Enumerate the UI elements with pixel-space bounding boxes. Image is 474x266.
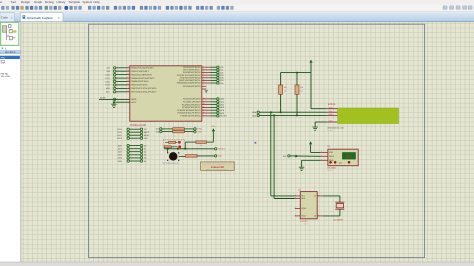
svg-text:Microcontroller Simulation: Microcontroller Simulation [207,169,229,171]
svg-text:TXD: TXD [198,130,203,133]
svg-text:×: × [58,16,60,20]
svg-text:DS18B20: DS18B20 [327,166,336,169]
svg-text:85.0: 85.0 [346,154,352,158]
svg-text:PC4/ADC4/SDA/PCINT12: PC4/ADC4/SDA/PCINT12 [177,109,201,112]
svg-text:Schematic Capture: Schematic Capture [27,16,54,20]
pin PB6 left [127,87,130,89]
svg-text:PD0/RXD/PCINT16: PD0/RXD/PCINT16 [183,66,201,69]
svg-text:X2: X2 [314,215,316,218]
svg-text:PB3/MOSI/OC2A/PCINT3: PB3/MOSI/OC2A/PCINT3 [131,77,155,80]
wire U3 GND to ground [302,159,321,161]
svg-text:AREF: AREF [100,97,106,100]
svg-text:P: P [2,47,4,50]
pin PB7 left [127,91,130,93]
wire to U3 DQ [295,155,298,158]
svg-text:PD4/T0/XCK/PCINT20: PD4/T0/XCK/PCINT20 [180,77,201,80]
svg-text:Tool: Tool [11,0,17,4]
svg-text:X1: X1 [314,195,316,198]
svg-text:PC0/ADC0/PCINT8: PC0/ADC0/PCINT8 [183,98,201,101]
svg-text:AREF: AREF [131,98,137,101]
resistor R6 [295,85,299,94]
menu bar [0,0,474,5]
svg-text:Code: Code [1,16,9,20]
ground U3 [299,167,304,170]
LED TX [178,141,181,144]
svg-text:Arduino UNO: Arduino UNO [211,166,224,169]
svg-text:PB7/TOSC2/XTAL2/PCINT7: PB7/TOSC2/XTAL2/PCINT7 [131,91,157,94]
svg-text:PD1/TXD/PCINT17: PD1/TXD/PCINT17 [183,69,201,72]
svg-text:Template: Template [69,0,81,4]
pin AVCC with ground [114,101,130,103]
LCD1 screen [338,108,399,124]
pin PB3 left [127,77,130,79]
svg-text:PC1/ADC1/PCINT9: PC1/ADC1/PCINT9 [183,101,201,104]
svg-text:RESET: RESET [220,115,227,118]
U3 DS18B20 body [328,149,358,166]
pin PC6 right [202,115,211,117]
svg-text:AVCC: AVCC [131,101,137,104]
pin PC4 right [202,109,211,111]
junction dots bus [270,111,272,113]
svg-text:SCL: SCL [329,110,333,113]
svg-text:LCD1: LCD1 [328,102,336,106]
pin PC0 right [202,98,211,100]
svg-text:ARD: ARD [1,56,6,59]
svg-text:Graph: Graph [34,0,42,4]
svg-text:PC3/ADC3/PCINT11: PC3/ADC3/PCINT11 [182,106,201,109]
svg-text:SQW: SQW [301,207,306,210]
wire SCL row [260,111,327,113]
push button (reset) [167,149,169,153]
resistor in box row A [165,141,168,143]
terminal RESET [215,148,217,150]
svg-text:32.768kHz: 32.768kHz [333,218,343,221]
toolbar [0,5,474,12]
wire SDA row [260,114,327,116]
junction dots [167,148,169,150]
svg-text:PB1/OC1A/PCINT1: PB1/OC1A/PCINT1 [131,70,149,73]
microcontroller U1 ATMEGA328P body [130,66,202,121]
svg-text:×: × [11,16,13,20]
resistor R5 [279,85,283,94]
svg-text:16: 16 [127,73,129,75]
svg-text:Design: Design [21,0,30,4]
svg-text:17: 17 [127,77,129,79]
svg-text:15: 15 [127,70,129,72]
wire reset rail [164,148,214,150]
pin PC5 right [202,112,211,114]
svg-text:PD6/AIN0/OC0A/PCINT22: PD6/AIN0/OC0A/PCINT22 [177,82,202,85]
svg-text:ARDUINO I2C LCD: ARDUINO I2C LCD [327,126,344,129]
pin PB4 left [127,81,130,83]
pin PC2 right [202,104,211,106]
sheet border [89,24,425,257]
left panel [0,22,20,262]
svg-text:PB6/TOSC1/XTAL1/PCINT6: PB6/TOSC1/XTAL1/PCINT6 [131,87,157,90]
svg-text:PB2/SS/OC1B/PCINT2: PB2/SS/OC1B/PCINT2 [131,73,153,76]
U2 left pins [295,195,301,197]
U3 pins [320,152,328,154]
svg-text:PD2/INT0/PCINT18: PD2/INT0/PCINT18 [183,71,201,74]
svg-text:PB0/ICP1/CLKO/PCINT0: PB0/ICP1/CLKO/PCINT0 [131,67,154,70]
svg-text:Help: Help [94,0,100,4]
power arrow top [309,60,312,63]
svg-text:SCL: SCL [301,195,305,198]
LED RX [178,145,181,148]
pin PC3 right [202,106,211,108]
LCD1 pins [327,108,338,110]
pin PB0 left [127,67,130,69]
svg-text:VDD: VDD [329,151,334,154]
svg-text:DATA: DATA [329,155,335,158]
U3 display [342,153,355,160]
pin PB1 left [127,70,130,72]
svg-text:DS1307: DS1307 [300,220,308,223]
label box Arduino UNO [201,162,235,171]
svg-text:YELLOW: YELLOW [1,75,11,78]
crystal X1 [335,201,344,203]
svg-text:RXD: RXD [198,128,203,131]
resistor in box row B [163,146,166,148]
wire top rail [281,72,311,74]
resistor reset pull-up [206,141,213,143]
svg-text:PB5/SCK/PCINT5: PB5/SCK/PCINT5 [131,84,148,87]
svg-text:PC5/ADC5/SCL/PCINT13: PC5/ADC5/SCL/PCINT13 [177,112,201,115]
svg-text:PD3/INT1/OC2B/PCINT19: PD3/INT1/OC2B/PCINT19 [177,74,201,77]
svg-text:DEVICES: DEVICES [5,51,16,54]
svg-text:RESET: RESET [218,148,225,151]
pin PD0 right [202,66,211,68]
pin PD1 right [202,69,211,71]
svg-text:SCK: SCK [144,137,149,140]
pin PC1 right [202,101,211,103]
wire button to resistor [179,155,186,157]
DEVICES header [0,50,20,54]
blue marker dot [255,142,257,144]
device list [0,56,20,59]
svg-text:PB4/MISO/PCINT4: PB4/MISO/PCINT4 [131,80,149,83]
svg-text:18: 18 [127,80,129,82]
U3 buttons [329,161,332,164]
pin PB2 left [127,74,130,76]
pin AREF [99,98,130,100]
ground LCD [313,127,318,130]
dashed module box [163,139,184,148]
pin PD7 stub and gnd [202,85,206,87]
svg-text:PC6/RESET/PCINT14: PC6/RESET/PCINT14 [180,115,201,118]
pin PD5 right [202,79,211,81]
svg-text:System: System [83,0,93,4]
svg-text:PD5/T1/OC0B/PCINT21: PD5/T1/OC0B/PCINT21 [179,79,201,82]
svg-text:CAP: CAP [1,62,6,65]
wire vertical SDA down to U2 [273,115,275,198]
wires to crystal [323,195,340,197]
U2 DS1307 body [300,192,317,219]
svg-text:VBAT: VBAT [301,215,307,218]
power arrow U3 [309,141,312,144]
svg-text:19: 19 [127,83,129,85]
svg-text:Library: Library [57,0,66,4]
status bar [0,262,474,266]
svg-text:10: 10 [127,90,129,92]
resistor to IO6 terminal [185,155,197,158]
wire VSS to ground [315,121,327,123]
wire to dashed box [185,141,196,143]
svg-text:PD7/AIN1/PCINT23: PD7/AIN1/PCINT23 [183,85,202,88]
svg-text:PC2/ADC2/PCINT10: PC2/ADC2/PCINT10 [182,103,201,106]
svg-text:14: 14 [127,66,129,68]
svg-text:ATMEGA328P: ATMEGA328P [130,124,147,127]
svg-text:MISO: MISO [144,134,150,137]
svg-text:MOSI: MOSI [144,131,150,134]
svg-text:Debug: Debug [45,0,54,4]
tab bar [0,12,474,22]
wire VDD down to LCD [310,73,312,109]
pin PD3 right [202,74,211,76]
U2 right pins [317,195,323,197]
pin PD4 right [202,77,211,79]
pin PD6 right [202,82,211,84]
wire vertical SCL down to U2 [270,112,272,196]
pin PD2 right [202,72,211,74]
overview window [1,22,19,45]
pin PB5 left [127,84,130,86]
